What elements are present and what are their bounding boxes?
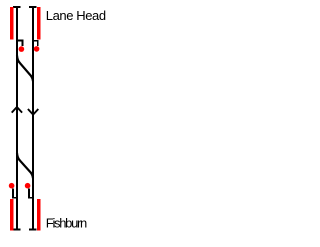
signal head (red) top-right bbox=[34, 46, 40, 52]
svg-text:Fishburn: Fishburn bbox=[46, 216, 87, 231]
track line: right (Down line) bbox=[32, 6, 34, 231]
buffer stop bottom-left bbox=[13, 229, 21, 231]
buffer stop top-right bbox=[29, 6, 37, 8]
direction arrow down (right track) bbox=[28, 109, 38, 115]
signal post bottom-left (stem up then right to track) bbox=[12, 189, 17, 199]
signal post bottom-right bbox=[28, 189, 33, 199]
buffer stop top-left bbox=[13, 6, 21, 8]
buffer stop bottom-right bbox=[29, 229, 37, 231]
signal head (red) bottom-right bbox=[25, 183, 31, 189]
signal head (red) bottom-left bbox=[9, 183, 15, 189]
track line: left (Up line) bbox=[16, 6, 18, 231]
red berth bar bottom-right (Fishburn platform, occupied) bbox=[37, 199, 41, 231]
crossover 2 (left track to right track, lower) bbox=[17, 153, 33, 178]
signal post top-left (stem from track, right then down) bbox=[17, 40, 23, 46]
signal post top-right bbox=[33, 40, 39, 46]
svg-text:Lane Head: Lane Head bbox=[46, 8, 106, 23]
signal head (red) top-left bbox=[19, 46, 25, 52]
red berth bar top-left (Lane Head platform, occupied) bbox=[10, 7, 14, 40]
red berth bar bottom-left (Fishburn platform, occupied) bbox=[10, 199, 14, 231]
direction arrow up (left track) bbox=[12, 107, 22, 113]
red berth bar top-right (Lane Head platform, occupied) bbox=[37, 7, 41, 40]
crossover 1 (left track to right track, upper) bbox=[17, 56, 33, 82]
